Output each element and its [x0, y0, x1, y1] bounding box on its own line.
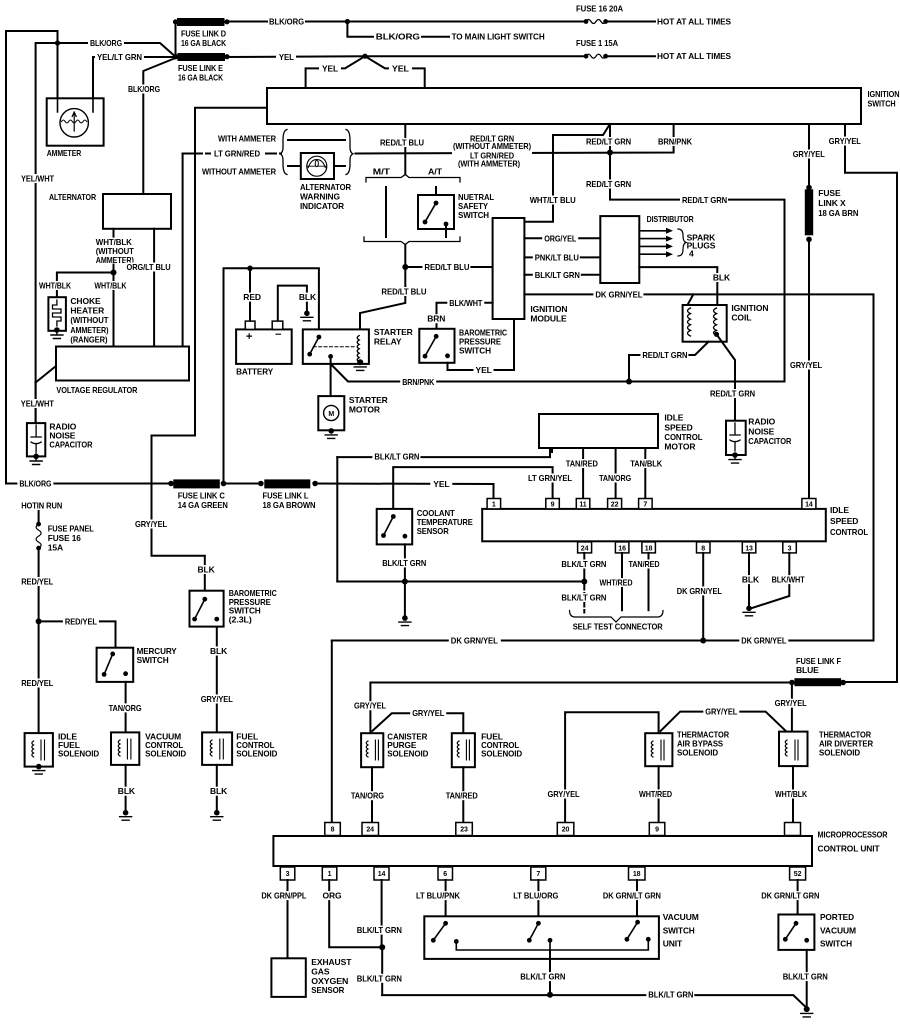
label BLK/LT GRN pin14	[355, 926, 403, 935]
svg-text:RED/LT BLU: RED/LT BLU	[424, 262, 469, 272]
svg-text:M/T: M/T	[373, 167, 391, 177]
idle speed control motor box	[539, 414, 658, 448]
svg-text:RADIO: RADIO	[748, 417, 775, 427]
bracket self test connector	[570, 611, 664, 623]
svg-text:LINK X: LINK X	[818, 198, 846, 208]
svg-text:BLK: BLK	[210, 646, 228, 656]
wire neutral safety out	[445, 224, 447, 237]
svg-text:RED/LT GRN: RED/LT GRN	[586, 179, 631, 189]
svg-text:RED/LT GRN: RED/LT GRN	[642, 350, 687, 360]
pin 1	[487, 499, 501, 509]
pin 7	[639, 499, 653, 509]
svg-text:ALTERNATOR: ALTERNATOR	[300, 182, 351, 192]
svg-text:BLK/LT GRN: BLK/LT GRN	[561, 593, 606, 603]
label BLK vacuum solenoid	[116, 787, 134, 796]
svg-text:YEL: YEL	[392, 63, 409, 73]
idle fuel solenoid	[25, 733, 53, 767]
spark plug arrows	[639, 231, 666, 254]
label BLK/ORG left	[88, 39, 124, 48]
svg-text:BLK/LT GRN: BLK/LT GRN	[382, 558, 426, 568]
node coolant ground junction	[402, 579, 408, 585]
ground radio noise capacitor right	[729, 456, 741, 464]
svg-text:CONTROL: CONTROL	[664, 432, 702, 442]
wire BLK/LT GRN to ground below	[404, 582, 406, 616]
wire ORG/LT BLU from alternator	[153, 229, 155, 347]
wire A/T path to neutral safety switch	[435, 187, 437, 195]
wire DK GRN/YEL tap to coil	[688, 294, 694, 305]
wire BLK/WHT into module	[437, 303, 493, 329]
svg-text:23: 23	[460, 827, 468, 834]
label BLK/ORG top run	[268, 17, 305, 26]
wire GRY/YEL bypass to diverter	[661, 712, 787, 732]
svg-text:RED/YEL: RED/YEL	[21, 577, 53, 587]
wire BLK vacuum control solenoid ground	[125, 765, 127, 810]
wire WHT/BLK to choke heater	[57, 273, 114, 298]
svg-text:M: M	[328, 411, 334, 418]
voltage regulator box	[56, 347, 189, 381]
svg-text:LT GRN/RED: LT GRN/RED	[214, 149, 260, 159]
svg-text:SOLENOID: SOLENOID	[677, 747, 718, 757]
svg-text:STARTER: STARTER	[349, 395, 388, 405]
wire RED/LT BLU to ignition module	[405, 266, 492, 268]
wire BLK/ORG drop to alternator	[143, 58, 175, 194]
label BLK/WHT pin3	[770, 575, 807, 584]
label WHT/RED bypass	[637, 790, 674, 799]
label TAN/ORG purge	[349, 791, 386, 800]
vacuum switch unit box	[424, 916, 659, 959]
svg-text:SWITCH: SWITCH	[868, 99, 896, 109]
wire TAN/RED pin 18	[648, 553, 650, 610]
wire WHT/LT BLU from ignition switch to module	[524, 124, 610, 222]
idle speed control box	[482, 509, 826, 541]
node RED/LT BLU junction	[402, 264, 408, 270]
svg-text:WITHOUT AMMETER: WITHOUT AMMETER	[202, 167, 276, 177]
svg-text:15A: 15A	[48, 542, 63, 552]
svg-text:WHT/BLK: WHT/BLK	[775, 789, 808, 799]
wire BLK/LT GRN bottom bus	[382, 995, 807, 1008]
battery box	[236, 329, 292, 364]
svg-text:RELAY: RELAY	[374, 336, 402, 346]
svg-text:TO MAIN LIGHT SWITCH: TO MAIN LIGHT SWITCH	[452, 32, 545, 42]
svg-text:IGNITION: IGNITION	[530, 304, 567, 314]
wire RED/LT GRN coil to radio noise capacitor	[717, 334, 736, 420]
fuse link L	[264, 479, 310, 488]
svg-text:RED/LT BLU: RED/LT BLU	[380, 138, 424, 148]
barometric pressure switch box	[419, 329, 454, 363]
ground choke	[51, 331, 63, 339]
wire YEL top run	[227, 55, 586, 58]
svg-text:SOLENOID: SOLENOID	[819, 747, 860, 757]
pin 9	[546, 499, 560, 509]
wire YEL/WHT left vertical	[36, 43, 58, 423]
svg-text:DK GRN/YEL: DK GRN/YEL	[677, 586, 722, 596]
svg-text:PNK/LT BLU: PNK/LT BLU	[535, 253, 579, 263]
label GRY/YEL fuse X lower	[788, 361, 824, 370]
wire WHT/RED pin 16	[621, 553, 623, 610]
label BLK gry chain	[196, 565, 214, 574]
fuse link X	[805, 189, 813, 235]
svg-text:SPEED: SPEED	[830, 516, 858, 526]
wire between fuse links	[224, 483, 261, 485]
svg-text:YEL/WHT: YEL/WHT	[21, 399, 55, 409]
svg-text:YEL: YEL	[433, 479, 449, 489]
fuse link E	[178, 53, 226, 61]
label DK GRN/LT GRN pin52	[759, 891, 821, 900]
MCU pin blank top	[785, 823, 801, 836]
svg-text:INDICATOR: INDICATOR	[300, 201, 344, 211]
svg-text:4: 4	[689, 248, 694, 258]
label DK GRN/YEL bottom run	[739, 636, 788, 645]
label GRY/YEL fc2	[410, 709, 446, 718]
wire BLK distributor to ignition coil	[639, 267, 717, 305]
label BLK/LT GRN coolant ground	[380, 558, 428, 567]
svg-text:7: 7	[536, 871, 540, 878]
svg-text:TAN/ORG: TAN/ORG	[351, 791, 384, 801]
svg-text:18: 18	[645, 545, 653, 552]
label YEL top run	[276, 53, 296, 62]
wire YEL baro switch to module bottom	[448, 319, 515, 370]
svg-text:ORG/YEL: ORG/YEL	[544, 234, 576, 244]
label RED/LT BLU junction	[422, 263, 470, 272]
wire DK GRN/YEL pin 8	[702, 553, 704, 641]
label BLK/LT GRN bottom bus	[646, 990, 694, 999]
node DK GRN/YEL pin 8 junction	[700, 638, 706, 644]
svg-text:IGNITION: IGNITION	[731, 303, 768, 313]
svg-text:HOTIN RUN: HOTIN RUN	[21, 500, 62, 510]
svg-text:GRY/YEL: GRY/YEL	[790, 360, 822, 370]
svg-text:ORG/LT BLU: ORG/LT BLU	[127, 262, 171, 272]
label BLK/LT GRN pin14 lower	[355, 974, 403, 983]
label RED/LT BLU top	[378, 138, 425, 147]
label BRN/PNK relay	[400, 377, 436, 386]
wire HOTIN RUN fuse panel drop	[38, 511, 40, 524]
pin 24	[578, 542, 592, 553]
svg-text:FUSE LINK C: FUSE LINK C	[178, 490, 225, 500]
svg-text:SOLENOID: SOLENOID	[481, 749, 522, 759]
svg-text:WARNING: WARNING	[300, 192, 340, 202]
svg-text:22: 22	[611, 502, 619, 509]
svg-text:YEL/LT GRN: YEL/LT GRN	[97, 52, 142, 62]
wire YEL fork right to ignition switch	[365, 56, 425, 88]
svg-text:YEL: YEL	[322, 63, 338, 73]
MCU pin 8 top	[325, 823, 341, 836]
wire RED/LT BLU to junction	[360, 245, 405, 336]
wire BLK/LT GRN pin 24	[583, 553, 585, 582]
label WHT/LT BLU	[528, 196, 578, 205]
wire TAN/ORG pin 22	[615, 448, 617, 499]
label YEL fuse L	[430, 480, 452, 489]
svg-text:20: 20	[562, 827, 570, 834]
brace right ammeter paths	[346, 130, 353, 175]
svg-text:BLK: BLK	[742, 575, 760, 585]
MCU pin 23 top	[456, 823, 473, 836]
wire GRY/YEL pin 20 riser	[565, 712, 659, 822]
label RED/LT GRN capacitor	[708, 389, 756, 398]
label RED/LT BLU relay	[379, 287, 427, 296]
label DK GRN/YEL module	[593, 290, 643, 299]
svg-text:GRY/YEL: GRY/YEL	[201, 694, 233, 704]
svg-text:ORG: ORG	[323, 891, 343, 901]
label DK GRN/YEL pin8	[675, 586, 724, 595]
svg-text:BLUE: BLUE	[796, 665, 819, 675]
svg-text:LT GRN/YEL: LT GRN/YEL	[528, 473, 572, 483]
wire LT BLU/PNK pin6	[445, 880, 447, 916]
ignition switch box	[267, 88, 861, 124]
node battery RED junction	[247, 266, 253, 272]
svg-text:STARTER: STARTER	[374, 327, 413, 337]
neutral safety switch U-box	[418, 195, 454, 229]
svg-text:SOLENOID: SOLENOID	[58, 749, 99, 759]
svg-text:FUSE LINK D: FUSE LINK D	[181, 28, 226, 38]
radio noise capacitor right	[726, 421, 746, 455]
svg-text:14 GA GREEN: 14 GA GREEN	[178, 500, 228, 510]
fuel control solenoid right	[452, 733, 475, 767]
svg-text:52: 52	[794, 871, 802, 878]
label GRY/YEL bypass-diverter	[703, 707, 739, 716]
svg-text:NOISE: NOISE	[748, 427, 774, 437]
node BLK/LT GRN pin24 junction	[581, 579, 587, 585]
svg-text:(WITHOUT AMMETER): (WITHOUT AMMETER)	[453, 141, 531, 151]
wire BLK/LT GRN left vertical	[336, 457, 338, 581]
svg-text:SELF TEST CONNECTOR: SELF TEST CONNECTOR	[573, 621, 663, 631]
alternator box	[103, 194, 171, 229]
MCU pin 52 bottom	[790, 867, 806, 880]
svg-text:16 GA BLACK: 16 GA BLACK	[181, 38, 227, 48]
svg-text:BATTERY: BATTERY	[236, 367, 273, 377]
svg-text:SOLENOID: SOLENOID	[387, 749, 428, 759]
node YEL fork	[362, 54, 367, 59]
svg-text:6: 6	[443, 871, 447, 878]
fuse 16 20A	[606, 21, 655, 23]
svg-text:VACUUM: VACUUM	[663, 912, 699, 922]
wire LT GRN/RED horizontal	[183, 153, 281, 155]
ground bottom right	[804, 1006, 810, 1012]
svg-text:RED/LT GRN: RED/LT GRN	[682, 195, 727, 205]
svg-text:SENSOR: SENSOR	[417, 526, 449, 536]
svg-text:TAN/RED: TAN/RED	[629, 559, 660, 569]
wire RED/LT BLU drop from ignition switch	[404, 124, 406, 175]
svg-text:FUSE PANEL: FUSE PANEL	[48, 523, 94, 533]
label TAN/ORG pin22	[597, 474, 633, 483]
MCU pin 14 bottom	[374, 867, 389, 880]
svg-text:BLK: BLK	[210, 786, 228, 796]
label DK GRN/LT GRN pin18	[601, 891, 663, 900]
label LT GRN/YEL	[526, 474, 574, 483]
wire BLK/LT GRN ported switch to ground	[806, 950, 808, 1006]
svg-text:BLK/LT GRN: BLK/LT GRN	[648, 990, 693, 1000]
svg-text:BLK: BLK	[713, 273, 731, 283]
label WHT/RED pin16	[598, 578, 635, 587]
svg-text:BLK/LT GRN: BLK/LT GRN	[374, 452, 419, 462]
wire M/T path	[385, 187, 387, 237]
label BLK/LT GRN motor	[372, 452, 420, 461]
wire DK GRN/YEL module to right side	[524, 294, 873, 640]
svg-text:RED/YEL: RED/YEL	[21, 678, 53, 688]
label RED/LT GRN distributor	[680, 196, 728, 205]
wire LT GRN/RED right of braces to BRN/PNK	[356, 124, 674, 154]
svg-text:DK GRN/LT GRN: DK GRN/LT GRN	[761, 891, 819, 901]
node BLK/ORG branch	[345, 19, 350, 24]
svg-text:UNIT: UNIT	[663, 938, 683, 948]
wire starter relay to starter motor	[330, 356, 332, 396]
fuel control solenoid left	[202, 732, 232, 765]
MCU pin 9 top	[649, 823, 665, 836]
label TAN/ORG mercury	[107, 703, 144, 712]
svg-text:WHT/LT BLU: WHT/LT BLU	[530, 195, 576, 205]
svg-text:SOLENOID: SOLENOID	[236, 749, 277, 759]
wire DK GRN/YEL bottom run	[332, 640, 874, 642]
MCU pin 6 bottom	[438, 867, 453, 880]
wire GRY/YEL fuse X to pin 14	[808, 239, 810, 498]
ignition coil box	[683, 305, 727, 342]
svg-text:FUSE LINK L: FUSE LINK L	[263, 490, 309, 500]
canister purge solenoid	[361, 733, 383, 767]
wire BRN/PNK relay run	[331, 365, 784, 382]
svg-text:DK GRN/LT GRN: DK GRN/LT GRN	[603, 891, 661, 901]
svg-text:SWITCH: SWITCH	[663, 925, 695, 935]
wire BLK/LT GRN horizontal ground bus	[337, 581, 584, 583]
vacuum control solenoid	[111, 732, 139, 765]
svg-text:YEL/WHT: YEL/WHT	[21, 174, 55, 184]
svg-text:FUSE 1 15A: FUSE 1 15A	[576, 38, 618, 48]
svg-text:TAN/RED: TAN/RED	[446, 791, 478, 801]
svg-text:18 GA BRN: 18 GA BRN	[818, 208, 858, 218]
svg-text:24: 24	[366, 827, 374, 834]
svg-text:TAN/BLK: TAN/BLK	[630, 459, 663, 469]
pin 16	[615, 542, 629, 553]
label BLK/LT GRN pin24 lower	[559, 593, 607, 602]
wire TAN/BLK pin 7	[644, 448, 646, 499]
svg-text:MOTOR: MOTOR	[349, 404, 380, 414]
svg-text:FUSE 16 20A: FUSE 16 20A	[576, 4, 623, 14]
svg-text:RED/LT BLU: RED/LT BLU	[381, 287, 426, 297]
label RED/YEL 1	[19, 577, 55, 586]
starter relay box	[303, 329, 369, 364]
svg-text:14: 14	[378, 871, 386, 878]
MCU pin 24 top	[362, 823, 379, 836]
wire coolant sensor ground lead	[404, 544, 406, 581]
svg-text:DK GRN/YEL: DK GRN/YEL	[741, 636, 786, 646]
svg-text:GRY/YEL: GRY/YEL	[829, 136, 861, 146]
svg-text:SENSOR: SENSOR	[311, 985, 344, 995]
label LT GRN/RED left	[203, 149, 279, 158]
wire LT BLU/ORG pin7	[537, 880, 539, 916]
svg-text:9: 9	[551, 502, 555, 509]
brace spark plugs	[678, 229, 686, 256]
svg-text:DK GRN/YEL: DK GRN/YEL	[595, 290, 642, 300]
wire with-ammeter path	[288, 139, 345, 141]
label WHT/BLK diverter	[773, 790, 809, 799]
svg-text:FUSE: FUSE	[818, 188, 841, 198]
svg-text:SOLENOID: SOLENOID	[145, 749, 186, 759]
svg-text:WITH AMMETER: WITH AMMETER	[218, 134, 276, 144]
wire LT GRN/RED down to voltage regulator	[182, 154, 184, 347]
svg-text:BLK: BLK	[299, 292, 317, 302]
wire BLK/LT GRN module to distributor	[524, 274, 600, 276]
svg-text:BLK/LT GRN: BLK/LT GRN	[535, 270, 580, 280]
wire BLK battery to ground	[278, 286, 307, 322]
svg-text:RED/LT GRN: RED/LT GRN	[586, 137, 631, 147]
svg-text:16 GA BLACK: 16 GA BLACK	[178, 73, 224, 83]
svg-text:14: 14	[805, 502, 813, 509]
label RED/LT GRN ign 2	[584, 180, 632, 189]
wire DK GRN/PPL pin3 to EGO	[287, 880, 289, 958]
label ORG/YEL	[542, 234, 578, 243]
node RED/YEL branch	[36, 618, 42, 624]
label BLK/ORG vertical	[126, 85, 162, 94]
svg-text:(WITH AMMETER): (WITH AMMETER)	[458, 159, 520, 169]
svg-text:RED: RED	[243, 292, 261, 302]
wire DK GRN/LT GRN pin18	[636, 880, 638, 916]
label RED battery	[241, 293, 259, 302]
svg-text:AMMETER: AMMETER	[47, 148, 81, 158]
ground starter relay	[354, 367, 366, 371]
svg-text:1: 1	[492, 502, 496, 509]
svg-text:DISTRIBUTOR: DISTRIBUTOR	[647, 214, 694, 224]
wire without-ammeter path through indicator	[288, 165, 345, 167]
svg-text:8: 8	[701, 545, 705, 552]
label YEL/WHT top	[19, 174, 56, 183]
wire GRY/YEL purge to fuel control 2	[372, 713, 463, 733]
svg-text:BLK/LT GRN: BLK/LT GRN	[357, 973, 402, 983]
svg-text:GRY/YEL: GRY/YEL	[705, 707, 737, 717]
node ORG BLK/LT GRN junction	[379, 944, 385, 950]
svg-text:18 GA BROWN: 18 GA BROWN	[263, 500, 316, 510]
svg-text:RED/YEL: RED/YEL	[65, 617, 97, 627]
svg-text:GRY/YEL: GRY/YEL	[548, 789, 580, 799]
thermactor air bypass solenoid	[645, 733, 672, 766]
label GRY/YEL purge riser	[352, 701, 388, 710]
svg-text:HEATER: HEATER	[70, 306, 104, 316]
label WHT/BLK choke	[37, 281, 73, 290]
MCU pin 7 bottom	[531, 867, 546, 880]
distributor box	[600, 216, 639, 283]
pin 14	[802, 499, 816, 509]
svg-text:WHT/RED: WHT/RED	[639, 789, 672, 799]
wire BLK/LT GRN pin14	[381, 880, 383, 947]
label PNK/LT BLU	[533, 253, 580, 262]
wire WHT/RED bypass to pin 9	[658, 766, 660, 824]
svg-text:CAPACITOR: CAPACITOR	[49, 440, 92, 450]
svg-text:BLK: BLK	[198, 565, 216, 575]
bracket M/T A/T bottom	[364, 237, 460, 245]
MCU pin 1 bottom	[322, 867, 337, 880]
svg-text:GRY/YEL: GRY/YEL	[135, 519, 167, 529]
svg-text:11: 11	[579, 502, 586, 509]
svg-text:BLK/ORG: BLK/ORG	[90, 38, 122, 48]
wire DK GRN/LT GRN pin52	[797, 880, 799, 915]
wire YEL/WHT to radio noise capacitor	[35, 383, 37, 424]
choke heater	[48, 297, 66, 331]
svg-text:CONTROL UNIT: CONTROL UNIT	[818, 844, 881, 854]
wire fuse F to right edge	[843, 681, 897, 683]
label WHT/BLK (WITHOUT AMMETER) alternator	[94, 238, 136, 264]
label BLK battery	[297, 293, 314, 302]
ground starter motor	[328, 428, 334, 434]
svg-text:SWITCH: SWITCH	[458, 210, 489, 220]
pin 13	[742, 542, 756, 553]
svg-text:BLK: BLK	[118, 786, 136, 796]
svg-text:GRY/YEL: GRY/YEL	[775, 698, 807, 708]
wire RED/LT GRN branch to coil	[629, 342, 709, 382]
mercury switch box	[97, 648, 134, 682]
svg-text:LT BLU/PNK: LT BLU/PNK	[416, 891, 461, 901]
ground pin 13	[746, 606, 752, 612]
alternator warning indicator	[301, 153, 334, 179]
microprocessor control unit box	[273, 836, 812, 866]
svg-text:FUSE 16: FUSE 16	[48, 533, 81, 543]
wire battery feed vertical	[224, 268, 319, 482]
